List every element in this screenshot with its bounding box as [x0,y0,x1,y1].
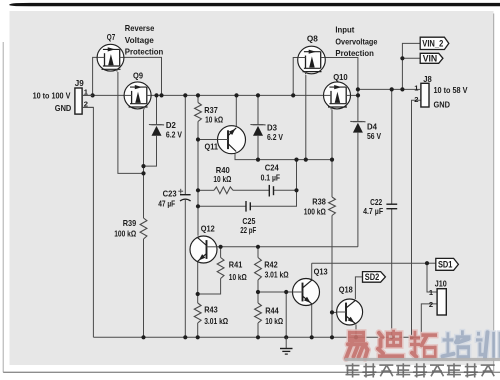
svg-text:2: 2 [84,100,88,109]
wire Q9 gate down to R39 and bottom rail [143,110,145,219]
wire D3 branch from rail [257,95,259,124]
svg-text:Q9: Q9 [133,70,143,80]
watermark big character 4 (blue) [441,329,472,360]
bottom page border line [3,371,500,373]
wire Q8 left lead down to rail [293,58,297,96]
wire Q18 emitter to bottom rail [355,325,357,338]
svg-text:3.01 kΩ: 3.01 kΩ [265,270,289,280]
svg-text:C24: C24 [265,163,279,173]
svg-text:56 V: 56 V [367,131,381,141]
svg-text:D2: D2 [166,120,176,130]
svg-text:R37: R37 [204,105,218,115]
wire J9 pin2 stub [82,106,93,108]
net flag SD2 [363,272,386,283]
svg-text:10 kΩ: 10 kΩ [229,272,247,282]
svg-text:VIN_2: VIN_2 [422,39,443,49]
wire Q11 collector down to mid bus [235,151,332,160]
svg-text:6.2 V: 6.2 V [166,130,182,140]
right page border line [493,14,495,373]
svg-text:Voltage: Voltage [125,35,154,45]
svg-text:Q13: Q13 [314,267,328,277]
connector J8 [421,83,429,107]
junction dots J8 feed line [356,87,360,91]
svg-text:D3: D3 [267,123,277,133]
wire D2 branch from rail [156,95,158,124]
wire SD2 stub and Q18 collector [355,277,362,299]
net flag SD1 [436,258,459,270]
junction dot R41 bottom [196,292,200,296]
wire C24 right to riser [274,189,297,191]
wire VIN branch riser [402,43,420,89]
watermark gray underline band [345,358,500,361]
junction dot Q18 base [330,310,334,314]
svg-text:10 to 100 V: 10 to 100 V [33,90,71,100]
svg-text:10 kΩ: 10 kΩ [205,114,223,124]
svg-text:Input: Input [335,25,354,35]
svg-text:22 pF: 22 pF [240,225,256,235]
resistor R37 [195,103,202,122]
watermark big character 2 (red) [377,328,406,360]
wire Q10 gate down to mid bus end [331,110,333,160]
connector J10 [437,289,446,315]
wire J8 pin1 feed line [358,88,416,90]
svg-text:SD2: SD2 [365,272,380,282]
wire Q11 emitter up to rail [235,95,237,128]
resistor R43 [194,303,201,323]
svg-text:Protection: Protection [125,47,164,57]
svg-text:SD1: SD1 [438,260,453,270]
net flag VIN_2 [420,37,449,49]
wire R38 node down through to Q18 base and bottom rail [331,160,333,197]
junction dots R40 C25 column [196,188,200,192]
wire R42 top stub [257,247,259,258]
wire J8 pin2 GND down to bottom rail [412,100,421,337]
junction dot VIN branch [400,56,404,60]
wire Q11 base [198,139,218,141]
wire C25 right to riser corner [250,160,296,207]
transistor Q9 MOSFET [124,82,151,109]
svg-text:Q11: Q11 [205,142,219,152]
wire Q7 right lead down to rail [124,57,162,95]
ground symbol [285,337,287,348]
junction dots bottom rail [141,335,145,339]
wire J9 pin1 stub [82,94,93,96]
transistor Q8 MOSFET [298,46,326,74]
wire Q12 base line to D4 node corner [207,246,358,248]
watermark big character 5 (blue) [475,330,500,359]
svg-text:10 kΩ: 10 kΩ [265,316,283,326]
wire Q13 base line [258,291,293,293]
svg-text:Q18: Q18 [339,285,353,295]
svg-text:2: 2 [414,95,418,104]
wire Q7 left lead down to J9 pin1 node [93,57,98,95]
junction dots mid bus [256,158,260,162]
wire Q8 gate down to mid bus [305,75,307,160]
svg-text:J10: J10 [435,278,447,288]
svg-text:Q7: Q7 [107,32,116,42]
resistor R42 [255,258,262,281]
junction dot SD1 J10 tap [425,261,429,265]
wire top rail Q10 right to D4 node [350,94,358,96]
svg-text:R39: R39 [123,218,137,228]
svg-text:Reverse: Reverse [125,23,155,33]
svg-text:J9: J9 [75,78,84,88]
wire SD1 to J10 pin1 drop [427,263,437,292]
capacitor C25 [245,201,247,212]
svg-text:Q8: Q8 [307,33,318,43]
wire Q8 right lead to J8 line [326,58,358,90]
bottom ground rail [93,336,421,338]
wire D3 anode to mid bus [257,136,259,160]
transistor Q11 NPN [218,126,246,154]
wire C22 branch from J8 line to bottom rail [391,89,393,204]
junction dots top rail [91,93,95,97]
svg-text:J8: J8 [423,74,432,84]
svg-text:R44: R44 [265,306,279,316]
svg-text:R42: R42 [264,259,278,269]
resistor R39 [140,218,147,239]
wire Q13 collector up to SD1 line [311,263,313,279]
transistor Q18 NPN [337,299,363,325]
wire D4 node riser [357,89,359,95]
resistor R44 [255,303,262,323]
svg-text:C23: C23 [163,189,177,199]
svg-text:R41: R41 [229,259,243,269]
capacitor C22 [386,203,397,205]
svg-text:47 µF: 47 µF [158,199,175,209]
transistor Q12 PNP mirrored [190,236,217,263]
transistor Q13 NPN [293,279,320,306]
svg-text:GND: GND [434,99,451,109]
resistor R41 [217,258,224,279]
wire D2 anode to Q9 gate line [144,136,157,166]
wire C25 line [198,205,246,207]
svg-text:3.01 kΩ: 3.01 kΩ [204,316,228,326]
wire R37 node to R40 C25 column [197,140,199,236]
junction dots Q12 base line [219,245,223,249]
svg-text:Q12: Q12 [201,223,215,233]
diode D3 zener [253,126,263,136]
watermark big character 3 (red) [409,329,439,360]
wire SD1 line [312,262,427,264]
connector J9 [75,88,82,114]
svg-text:100 kΩ: 100 kΩ [304,207,326,217]
capacitor C23 electrolytic [180,194,191,196]
wire J9 pin2 GND down to bottom rail [82,107,93,337]
net flag VIN [420,53,443,63]
wire top rail Q9 to Q10 [151,94,324,96]
wire R40 line [198,189,214,191]
svg-text:R43: R43 [204,305,218,315]
svg-text:6.2 V: 6.2 V [267,132,283,142]
wire R42 bottom to Q13 base node [257,280,259,292]
wire Q12 emitter down to R43 and bottom rail [197,260,199,304]
junction dot Q11 base [196,137,200,141]
svg-text:4.7 µF: 4.7 µF [363,206,383,216]
watermark big character 1 (red) [346,329,368,358]
wire R44 stub and to bottom rail [257,292,259,303]
wire Q13 base node ground drop [285,292,287,337]
wire Q18 base stub [332,311,337,313]
transistor Q10 MOSFET [324,82,351,109]
junction dot C24 riser [294,188,298,192]
wire D4 branch down to Q12 base line [357,95,359,121]
wire J9 pin1 to top rail [82,94,124,96]
resistor R38 [329,197,336,216]
svg-text:0.1 µF: 0.1 µF [261,172,281,182]
left page border line [2,42,4,372]
svg-text:Protection: Protection [335,48,374,58]
wire Q7 gate down and right to Q9 gate node [118,72,144,173]
junction dots Q13 base line [256,290,260,294]
wire VIN flag stub [402,57,420,59]
wire Q13 emitter down to bottom rail [311,305,313,337]
diode D4 zener [353,123,363,133]
resistor R40 horizontal [214,187,233,194]
wire J8 pin1 stub [416,88,421,90]
top black title bar [9,3,500,6]
wire J10 pin2 to bottom rail [421,304,437,337]
svg-text:R38: R38 [312,196,326,206]
diode D2 zener [152,126,162,136]
svg-text:VIN: VIN [423,54,438,64]
svg-text:D4: D4 [367,122,377,132]
svg-text:100 kΩ: 100 kΩ [114,229,136,239]
wire R41 top stub [220,247,222,258]
wire R37 to Q11 base node [197,122,199,140]
wire R41 bottom to emitter line [198,279,221,295]
wire C23 branch rail to bottom rail [184,95,186,194]
svg-text:GND: GND [55,103,72,113]
watermark small gray text line [346,363,360,377]
wire R37 branch from rail [197,95,199,102]
svg-text:2: 2 [429,300,433,309]
junction dots Q9 gate line [141,164,145,168]
svg-text:10 kΩ: 10 kΩ [213,174,231,184]
svg-text:Q10: Q10 [333,72,348,82]
svg-text:10 to 58 V: 10 to 58 V [434,85,468,95]
capacitor C24 [268,185,270,197]
transistor Q7 MOSFET [97,44,124,71]
svg-text:Overvoltage: Overvoltage [335,36,377,46]
C23 plus sign [178,190,183,192]
